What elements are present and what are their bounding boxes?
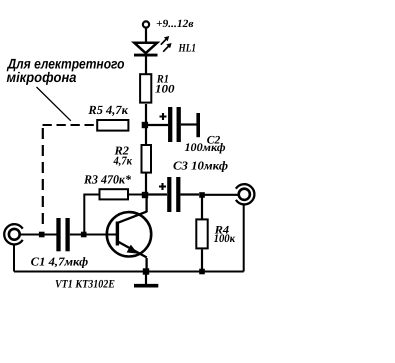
node D junction [39, 232, 45, 238]
wire terminal to LED [145, 28, 147, 42]
wire R3 right to node B [129, 194, 142, 196]
wire input connector to node D [21, 234, 42, 236]
svg-text:R5 4,7к: R5 4,7к [87, 103, 128, 117]
node F junction (emitter-ground) [143, 268, 149, 274]
wire collector to node B [145, 196, 147, 212]
svg-text:VT1 КТ3102Е: VT1 КТ3102Е [55, 278, 115, 290]
capacitor C1 [59, 218, 68, 251]
wire node A to C2 [148, 124, 168, 126]
wire node D to C1 [44, 234, 57, 236]
wire C3 to node C [180, 193, 199, 195]
wire node C to output connector [204, 194, 238, 196]
node G junction (R4 bottom) [199, 269, 205, 275]
node A junction [142, 122, 148, 128]
dashed wire horizontal (electret mic supply) [43, 124, 97, 126]
wire LED to R1 [145, 55, 147, 74]
wire R3 left down to node E [84, 195, 98, 235]
resistor R5 [97, 120, 128, 131]
wire R2 to node B [145, 174, 147, 196]
svg-text:100: 100 [155, 84, 175, 96]
svg-text:C3 10мкф: C3 10мкф [173, 159, 228, 173]
power terminal [143, 21, 149, 27]
resistor R2 [142, 145, 152, 173]
svg-text:HL1: HL1 [178, 42, 196, 54]
wire C2 right stub [181, 123, 197, 125]
resistor R1 [140, 74, 151, 102]
resistor R4 [196, 219, 207, 248]
capacitor C2 [160, 107, 179, 142]
annotation leader line [37, 87, 71, 121]
svg-text:+9...12в: +9...12в [156, 18, 194, 30]
LED HL1 [134, 36, 172, 55]
svg-text:100мкф: 100мкф [185, 142, 226, 154]
C2 stub end bar [196, 113, 200, 137]
node E junction [81, 232, 87, 238]
resistor R3 [100, 189, 129, 199]
capacitor C3 [159, 177, 178, 212]
svg-text:мікрофона: мікрофона [7, 69, 77, 85]
output connector XS2 [236, 184, 255, 204]
wire C1 to node E [70, 234, 82, 236]
svg-text:C1 4,7мкф: C1 4,7мкф [31, 255, 89, 269]
svg-text:4,7к: 4,7к [113, 153, 133, 167]
wire node B to C3 [148, 193, 167, 195]
svg-text:100к: 100к [214, 233, 237, 245]
node B junction (collector) [142, 192, 148, 198]
wire R4 down to rail [201, 250, 203, 272]
input connector XS1 [4, 224, 23, 244]
wire input connector down to rail [13, 245, 15, 272]
node C junction [199, 192, 205, 198]
wire R1 to node A [145, 104, 147, 144]
transistor VT1 [107, 211, 151, 257]
dashed wire vertical [42, 128, 44, 224]
svg-text:R3 470к*: R3 470к* [83, 172, 132, 186]
ground symbol [134, 274, 158, 286]
wire emitter down to rail [145, 258, 147, 272]
wire output connector down to rail [243, 205, 245, 272]
wire node C down to R4 [201, 197, 203, 219]
wire node E to base [86, 234, 116, 236]
ground rail wire [14, 271, 244, 273]
